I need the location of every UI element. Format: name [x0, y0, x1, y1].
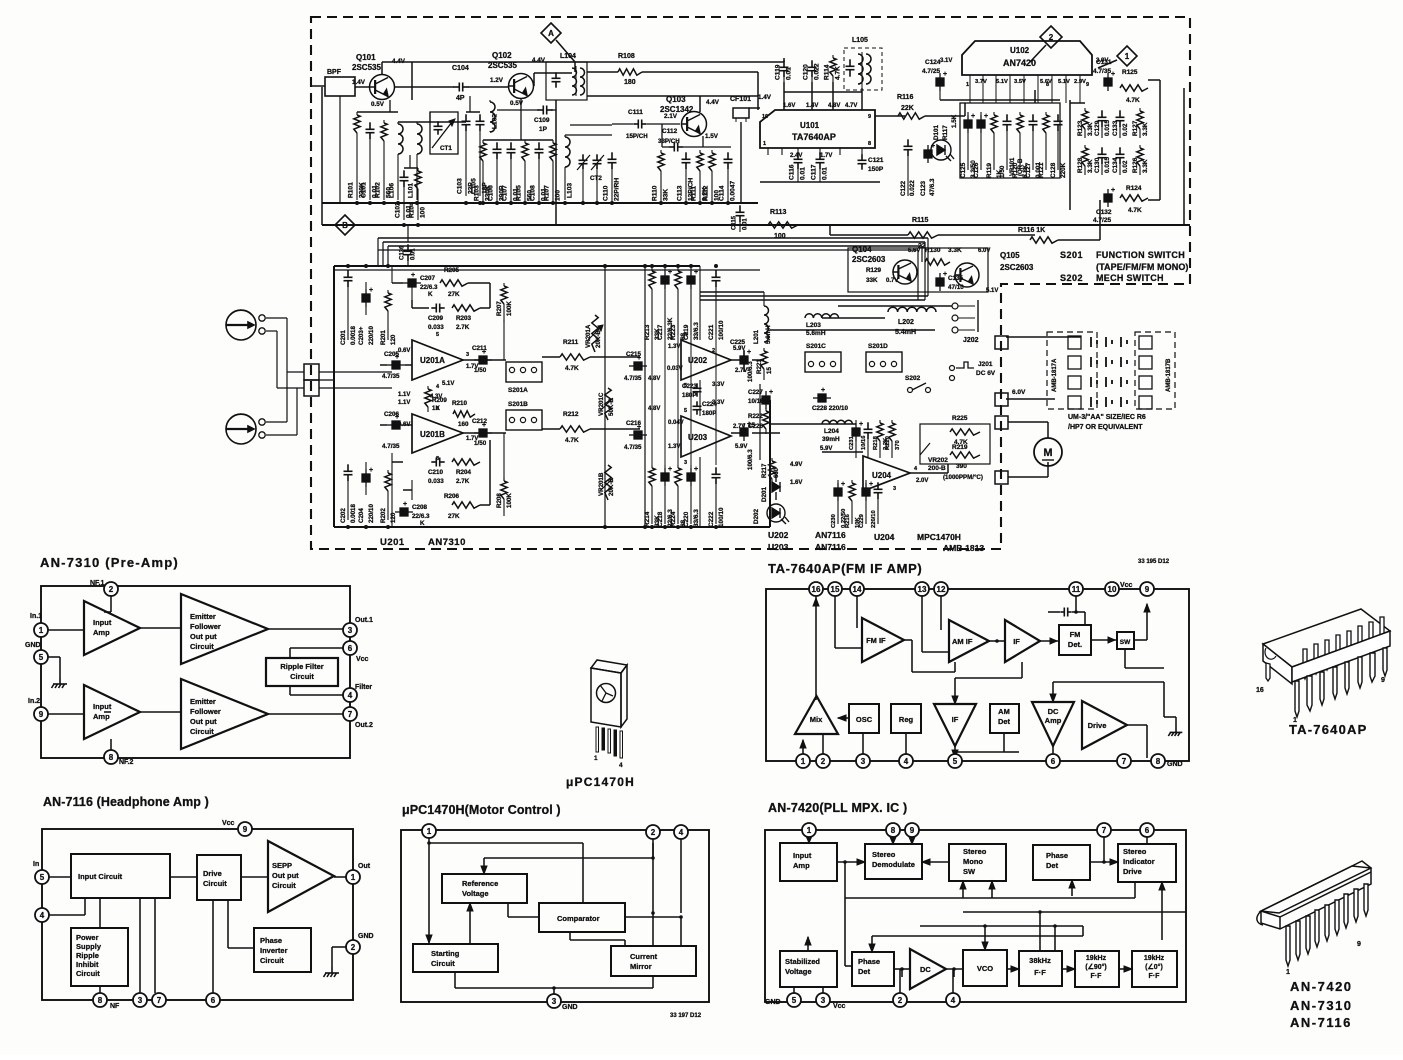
capacitor C209 0.033	[431, 304, 444, 313]
block Reg	[891, 704, 921, 733]
wire pin1 to input amp	[808, 837, 810, 843]
svg-text:K: K	[420, 520, 425, 527]
pin 15 TA7640 top	[828, 582, 842, 596]
package DIP16 front pins	[1295, 648, 1387, 717]
svg-text:+: +	[869, 481, 873, 488]
svg-text:R124: R124	[1126, 185, 1142, 192]
resistor R222	[765, 408, 767, 411]
svg-text:5: 5	[684, 408, 687, 414]
svg-text:4: 4	[619, 762, 623, 769]
svg-text:0.04V: 0.04V	[668, 420, 684, 426]
component R220	[891, 420, 893, 423]
svg-text:DC 6V: DC 6V	[976, 370, 996, 377]
wire bus to R115	[830, 234, 908, 236]
wire L104 to R108 to U101	[587, 71, 618, 73]
amplifier SEPP Output	[268, 841, 334, 912]
svg-text:1: 1	[966, 82, 969, 88]
svg-text:160: 160	[458, 421, 469, 428]
svg-text:AN-7116: AN-7116	[1290, 1015, 1352, 1030]
svg-text:Drive: Drive	[1088, 721, 1107, 730]
svg-text:1: 1	[594, 755, 598, 762]
wire IF to FM Det	[1040, 640, 1059, 642]
amplifier IF 2 inverted	[934, 704, 976, 746]
dashed enclosure main board AMB-1813	[311, 17, 1190, 549]
svg-text:3: 3	[684, 460, 687, 466]
component R213	[651, 268, 653, 271]
block VCO	[963, 950, 1007, 986]
svg-text:R204: R204	[456, 469, 472, 476]
svg-text:33K: 33K	[866, 277, 878, 284]
svg-text:OSC: OSC	[856, 715, 873, 724]
wire AM det to DC amp path	[1003, 733, 1005, 752]
wire Q101 collector up	[381, 62, 383, 75]
capacitor C216 4.7/35	[629, 424, 647, 439]
svg-text:220/10: 220/10	[368, 326, 375, 345]
svg-text:L102: L102	[492, 114, 499, 129]
svg-text:Amp: Amp	[93, 628, 110, 637]
capacitor C119 0.01	[780, 60, 789, 77]
svg-text:3: 3	[138, 996, 143, 1005]
battery enclosure dashed A	[1047, 332, 1097, 409]
opamp U204	[863, 456, 910, 491]
svg-text:15: 15	[748, 422, 755, 429]
svg-text:4.7V: 4.7V	[845, 103, 857, 109]
wires U204 area	[770, 423, 856, 425]
svg-text:C134: C134	[1112, 157, 1119, 173]
svg-text:TA7640AP: TA7640AP	[792, 132, 836, 142]
svg-text:R211: R211	[563, 339, 579, 346]
pin 6 TA7640 bottom	[1046, 754, 1060, 768]
resistor R203 2.7K	[452, 305, 480, 311]
svg-text:C212: C212	[472, 418, 488, 425]
IC U102 AN7420	[962, 41, 1092, 75]
wire FM IF out feedback	[904, 639, 912, 641]
pin 8 NF.2	[104, 750, 118, 764]
resistor R125 4.7K	[1120, 85, 1148, 91]
svg-text:R218: R218	[873, 435, 879, 450]
package uPC1470H pins	[596, 727, 623, 758]
amplifier IF 1	[1005, 620, 1040, 662]
resistor R204 2.7K	[452, 459, 480, 465]
IC outline AN-7310	[41, 586, 350, 758]
component 220/10	[874, 482, 883, 499]
svg-text:L106: L106	[389, 183, 396, 198]
switch S201A	[506, 362, 542, 382]
svg-text:1: 1	[807, 826, 812, 835]
svg-text:L105: L105	[852, 37, 868, 44]
capacitor C136 0.01 to preamp	[404, 244, 413, 261]
svg-text:L202: L202	[898, 319, 914, 326]
svg-text:Circuit: Circuit	[76, 969, 100, 978]
svg-text:+: +	[943, 71, 947, 78]
svg-text:R121: R121	[1038, 162, 1045, 178]
component R218	[879, 420, 881, 423]
svg-text:Vcc: Vcc	[1120, 582, 1133, 589]
svg-text:5.9V: 5.9V	[820, 446, 832, 452]
svg-text:1.1V: 1.1V	[398, 392, 410, 398]
wire pin4 down	[680, 837, 682, 913]
wire bottom collect	[454, 972, 456, 988]
svg-text:+: +	[1111, 71, 1115, 78]
IC U101 TA7640AP	[760, 110, 875, 148]
svg-text:C220: C220	[683, 511, 690, 527]
svg-text:R103: R103	[474, 185, 481, 201]
svg-text:C207: C207	[420, 275, 436, 282]
capacitor C224 180P	[693, 401, 702, 414]
svg-text:R117: R117	[942, 125, 949, 140]
wire comparator down to current mirror	[569, 932, 571, 940]
capacitor C106 330P	[493, 142, 502, 159]
wire U102 bus down	[940, 99, 1060, 101]
svg-text:GND: GND	[358, 933, 374, 940]
wire pin8 arrow to stereo demod	[892, 837, 894, 844]
wires middle to right	[731, 359, 744, 361]
svg-text:3: 3	[821, 996, 826, 1005]
svg-text:MPC1470H: MPC1470H	[917, 532, 961, 542]
svg-text:R101: R101	[348, 182, 355, 198]
svg-text:20K-B: 20K-B	[608, 478, 615, 496]
pin 3 bottom	[133, 993, 147, 1007]
svg-text:CF101: CF101	[730, 96, 751, 103]
component R216	[851, 480, 853, 483]
wire top rail across	[412, 61, 745, 63]
svg-text:1: 1	[39, 626, 44, 635]
svg-text:C227: C227	[748, 389, 763, 396]
svg-text:220K: 220K	[1060, 162, 1067, 178]
capacitor C227 10/16	[762, 389, 773, 409]
wires jacks to connector	[266, 317, 287, 319]
svg-text:R119: R119	[986, 163, 993, 178]
trimmer CT2 capacitor 1	[579, 154, 588, 169]
pin 13 TA7640 top	[915, 582, 929, 596]
pin 9 In.2	[34, 707, 48, 721]
capacitor C110 22P/RH	[608, 152, 617, 169]
wire comparator to current mirror right	[625, 916, 681, 918]
svg-text:Inverter: Inverter	[260, 946, 288, 955]
svg-text:C202: C202	[340, 508, 347, 523]
resistor R101 220K	[356, 112, 358, 115]
svg-text:Input: Input	[93, 618, 112, 627]
svg-text:1.7V: 1.7V	[820, 153, 832, 159]
svg-text:5: 5	[40, 873, 45, 882]
svg-text:C110: C110	[603, 185, 610, 201]
wires battery	[1006, 336, 1068, 338]
svg-text:180: 180	[624, 79, 636, 86]
wire pin2 bottom	[899, 969, 901, 995]
wire pin14 to FM IF input	[856, 596, 858, 628]
svg-text:M: M	[1043, 447, 1052, 459]
resistor R111 2.2K	[699, 150, 701, 153]
svg-text:9: 9	[243, 825, 248, 834]
wire pin4 bottom	[952, 969, 954, 995]
wire diamond 2 to U102	[1030, 45, 1046, 62]
wire IF1 tap down to IF2	[1021, 662, 1023, 678]
svg-text:C131: C131	[1096, 59, 1112, 66]
svg-text:NF: NF	[110, 1003, 120, 1010]
pin 7 Out.2	[343, 707, 357, 721]
switch S201D	[866, 352, 902, 372]
svg-text:C210: C210	[428, 469, 444, 476]
interconnect wire y250	[378, 249, 918, 251]
transistor Q104 2SC2603	[892, 260, 917, 284]
svg-text:Stereo: Stereo	[872, 850, 896, 859]
svg-text:SW: SW	[963, 867, 976, 876]
svg-text:120: 120	[390, 334, 397, 345]
transformer coils L104	[572, 68, 577, 95]
resistor R210 160	[453, 411, 475, 417]
svg-text:22/6.3: 22/6.3	[412, 513, 430, 520]
svg-text:F·F: F·F	[1034, 968, 1046, 977]
wire pin4 to input circuit	[49, 914, 85, 916]
svg-text:Vcc: Vcc	[833, 1003, 846, 1010]
capacitor C102 0.01	[400, 170, 409, 187]
block Phase Inverter Circuit	[254, 928, 311, 972]
component 1/50	[1003, 114, 1012, 131]
capacitor C201 0.0018	[344, 270, 353, 287]
svg-text:220/10: 220/10	[871, 510, 877, 528]
svg-text:0.02: 0.02	[1122, 123, 1129, 136]
amplifier AM IF	[949, 620, 989, 662]
svg-text:VR101: VR101	[1010, 157, 1016, 176]
svg-text:0.02: 0.02	[1122, 160, 1129, 173]
svg-text:R110: R110	[652, 185, 659, 201]
svg-text:100K: 100K	[506, 493, 513, 508]
wire into U201B	[405, 424, 412, 426]
pin 11 TA7640 top	[1069, 582, 1083, 596]
svg-text:Circuit: Circuit	[190, 642, 214, 651]
svg-text:Mirror: Mirror	[630, 962, 652, 971]
connector blocks on left border	[304, 364, 319, 380]
dashed box L105	[844, 48, 882, 90]
svg-text:7: 7	[348, 710, 353, 719]
svg-text:(TAPE/FM/FM MONO): (TAPE/FM/FM MONO)	[1096, 262, 1189, 272]
svg-text:C225: C225	[730, 339, 746, 346]
svg-text:C127: C127	[1025, 162, 1032, 178]
amplifier Drive	[1082, 701, 1127, 749]
pin 6 Vcc	[343, 641, 357, 655]
resistor R225 4.7K	[950, 429, 980, 435]
svg-text:AMB-1817B: AMB-1817B	[1166, 358, 1172, 392]
svg-text:Circuit: Circuit	[203, 879, 227, 888]
svg-text:2.4V: 2.4V	[790, 153, 802, 159]
svg-text:Inhibit: Inhibit	[76, 960, 99, 969]
variable resistor VR201A 20K-B	[592, 315, 598, 352]
rail under Q101 cluster	[357, 111, 398, 113]
svg-text:Stereo: Stereo	[963, 847, 987, 856]
wire Q101 to C104	[394, 86, 454, 88]
component C130	[1098, 147, 1107, 164]
svg-text:C231: C231	[849, 435, 855, 450]
svg-text:IF: IF	[952, 715, 959, 724]
variable resistor VR201C 50K-B	[605, 388, 611, 420]
svg-text:K: K	[428, 291, 433, 298]
wire phase det arrows up	[1071, 880, 1073, 896]
svg-text:C229: C229	[859, 513, 865, 528]
resistor R124 4.7K	[1120, 195, 1148, 201]
svg-text:C109: C109	[534, 117, 550, 124]
svg-text:C130: C130	[1094, 157, 1101, 173]
wire ref to comparator	[507, 903, 509, 917]
block Drive Circuit	[197, 855, 241, 900]
svg-text:C211: C211	[472, 345, 487, 352]
svg-text:+: +	[859, 421, 863, 428]
svg-text:4.7K: 4.7K	[1126, 97, 1140, 104]
svg-text:120: 120	[390, 512, 397, 523]
inductor L106	[397, 122, 399, 124]
svg-text:1.4V: 1.4V	[352, 79, 366, 86]
svg-text:Det.: Det.	[1068, 640, 1082, 649]
inductor L204 39mH	[822, 420, 852, 424]
svg-text:100K: 100K	[506, 301, 513, 316]
svg-text:Reg: Reg	[899, 715, 914, 724]
component R223	[677, 268, 679, 271]
svg-text:(∠0°): (∠0°)	[1145, 963, 1163, 971]
svg-text:L204: L204	[824, 428, 839, 435]
resistor R202 120	[387, 470, 389, 473]
amplifier Emitter Follower Output 1	[181, 594, 268, 664]
svg-text:3.1V: 3.1V	[940, 58, 952, 64]
svg-text:47/10: 47/10	[948, 284, 964, 291]
headphone jack 1	[226, 310, 256, 340]
component C230	[837, 480, 839, 483]
battery cells	[1068, 336, 1081, 349]
pin 4 TA7640 bottom	[899, 754, 913, 768]
resistor R103 330K	[482, 140, 484, 143]
svg-text:U201A: U201A	[420, 356, 445, 365]
wire pin15 to FM IF	[834, 596, 836, 648]
svg-text:1.5K: 1.5K	[951, 114, 958, 128]
svg-text:S201: S201	[1060, 250, 1083, 260]
svg-text:5.6mH: 5.6mH	[765, 325, 772, 344]
capacitor C225 100/6.3	[740, 349, 751, 369]
wire NF2	[110, 739, 112, 750]
capacitor C131 4.7/35	[1104, 71, 1115, 91]
wire pin4 to Reg	[905, 733, 907, 758]
pin 16 TA7640 top	[809, 582, 823, 596]
svg-text:9: 9	[39, 710, 44, 719]
wire vcc top	[244, 829, 246, 836]
svg-text:Filter: Filter	[355, 684, 372, 691]
svg-text:27K: 27K	[448, 513, 460, 520]
svg-text:Current: Current	[630, 952, 658, 961]
svg-text:+: +	[403, 501, 407, 508]
svg-text:Ripple Filter: Ripple Filter	[280, 662, 323, 671]
svg-text:R105: R105	[516, 185, 523, 201]
block FM Det	[1059, 625, 1091, 655]
block Comparator	[539, 903, 625, 932]
wire in1	[47, 629, 84, 631]
svg-text:5.6mH: 5.6mH	[806, 330, 826, 337]
svg-text:0.015: 0.015	[1104, 120, 1111, 136]
svg-text:R210: R210	[452, 400, 468, 407]
svg-text:0.01: 0.01	[800, 167, 807, 180]
svg-text:Stereo: Stereo	[1123, 847, 1147, 856]
svg-text:CT1: CT1	[440, 145, 452, 152]
svg-text:0.01: 0.01	[743, 218, 749, 230]
transistor Q101 2SC535	[369, 75, 394, 100]
capacitor C113 12P/CH	[682, 152, 691, 169]
svg-text:C101: C101	[361, 182, 368, 198]
wires switch to resistors	[542, 356, 560, 358]
capacitor C208 22/6.3	[395, 501, 413, 516]
svg-text:680: 680	[774, 467, 780, 478]
svg-text:0.033: 0.033	[428, 478, 444, 485]
block Phase Det 1	[1033, 845, 1090, 880]
svg-text:9: 9	[1381, 677, 1385, 684]
wire from diamond A	[556, 40, 575, 62]
block Stereo Demodulate	[865, 844, 922, 879]
amplifier DC Amp inverted	[1032, 702, 1074, 746]
svg-text:Voltage: Voltage	[462, 889, 489, 898]
wire DC to VCO	[946, 968, 963, 970]
svg-text:2SC2603: 2SC2603	[852, 255, 886, 264]
svg-text:2: 2	[898, 996, 903, 1005]
svg-text:19kHz: 19kHz	[1086, 955, 1107, 962]
svg-text:Out: Out	[358, 863, 371, 870]
svg-text:C204: C204	[358, 508, 365, 523]
wire SW bottom link	[1124, 649, 1126, 668]
wire pin1 branch	[428, 837, 430, 943]
jack J202	[952, 303, 958, 309]
wire 19k90 to 19k0	[1119, 968, 1132, 970]
pin 2 top uPC1470H	[646, 825, 660, 839]
svg-text:R114: R114	[824, 64, 831, 80]
pin 9 AN7420 top	[905, 823, 919, 837]
capacitor C108 0.01	[535, 142, 544, 159]
capacitor C116 0.01	[794, 152, 803, 169]
svg-text:33K: 33K	[663, 189, 670, 201]
svg-text:8: 8	[109, 753, 114, 762]
svg-text:C215: C215	[626, 351, 642, 358]
component C133	[1116, 110, 1125, 127]
wire drive output	[1127, 724, 1147, 726]
svg-text:4.7/35: 4.7/35	[624, 375, 642, 382]
resistor R112 100	[711, 150, 713, 153]
wire FM Det to SW	[1091, 639, 1117, 641]
IC outline AN-7116	[42, 829, 353, 1000]
svg-text:C108: C108	[530, 185, 537, 201]
component R214	[651, 465, 653, 468]
svg-text:100/6.3: 100/6.3	[747, 361, 754, 382]
svg-text:2SC535: 2SC535	[488, 61, 517, 70]
resistor R211 4.7K	[560, 354, 590, 360]
wire pin2 to mix	[822, 734, 824, 758]
svg-text:4.7/35: 4.7/35	[1093, 68, 1111, 75]
jack J201 DC 6V	[956, 362, 974, 368]
wire R116 right	[925, 115, 965, 117]
svg-text:Follower: Follower	[190, 622, 221, 631]
wire input amp to stereo demod	[837, 861, 865, 863]
wires switch rows	[838, 305, 952, 307]
svg-text:+: +	[971, 113, 975, 120]
svg-text:6: 6	[348, 644, 353, 653]
svg-text:S201D: S201D	[868, 343, 888, 350]
rail L101 CT1 tops	[398, 121, 466, 123]
svg-text:100: 100	[420, 207, 427, 218]
component C129	[1098, 110, 1107, 127]
svg-text:R212: R212	[563, 411, 579, 418]
block Input Amp	[780, 843, 837, 881]
wire U101 right to R116	[875, 115, 905, 117]
wires opamp outputs	[463, 359, 506, 361]
svg-text:C124: C124	[925, 59, 941, 66]
svg-text:100: 100	[774, 233, 786, 240]
svg-text:10/16: 10/16	[748, 398, 764, 405]
svg-text:C132: C132	[1096, 209, 1112, 216]
amplifier Mix	[795, 696, 838, 734]
resistor R130 body	[925, 259, 950, 265]
capacitor C103 22P	[462, 114, 471, 131]
